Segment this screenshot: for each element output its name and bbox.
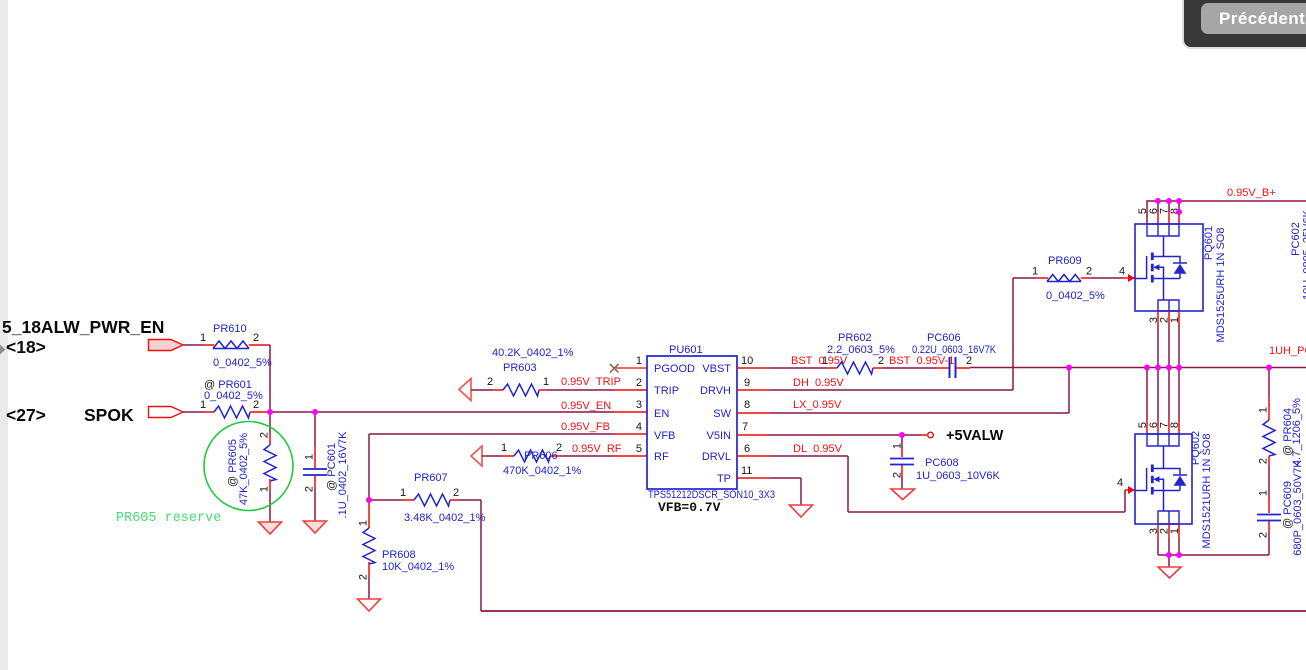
svg-text:2: 2 [1086,266,1092,278]
svg-text:PGOOD: PGOOD [654,363,695,375]
wire V5IN to PC608 tap [767,434,902,436]
svg-text:TP: TP [717,473,731,485]
ground symbol under PR605 [259,522,282,534]
capacitor C PC601 plates [303,469,327,475]
ground symbol under PQ602 [1158,567,1181,578]
wire divider to PR607 pin1 [369,499,404,501]
svg-text:4: 4 [1117,477,1123,489]
wire TP ground drop [800,478,802,505]
svg-text:4.7_1206_5%: 4.7_1206_5% [1291,398,1303,466]
wire LX_0.95V to riser [770,412,1069,414]
IC pin7 stub V5IN [737,434,767,436]
wire connector to PR610 pin1 [183,344,204,346]
resistor R PR602 (zigzag) [837,362,873,374]
wire DL 0.95V right [770,455,848,457]
IC pin2 stub [614,389,647,391]
wire PC609 pin2 to gnd bus [1268,532,1270,555]
transistor Q PQ602 body [1135,434,1192,524]
PQ601 MOSFET channel bars [1151,253,1154,283]
pin1 stub PC606 [936,367,949,369]
capacitor C PC609 plates [1257,515,1281,521]
svg-text:2: 2 [253,399,259,411]
wire SPOK down to PR605 pin2 [269,412,271,434]
wire arrow to PR606 pin1 [482,455,502,457]
wire DH 0.95V to riser [770,389,1013,391]
IC pin10 stub VBST [737,367,770,369]
junction gnd bus pin1 [1176,552,1182,558]
pin2 stub PC606 [956,367,970,369]
PQ601 pin4 stub with arrow [1122,277,1135,279]
pin2 stub PC601 [314,476,316,489]
svg-text:0.95V_EN: 0.95V_EN [561,400,611,412]
resistor R PR603 (zigzag) [503,384,539,396]
junction SW bus / PQ pin column 6-3 [1155,365,1161,371]
svg-text:2: 2 [1258,532,1270,538]
wire stub to ground symbol [1168,555,1170,567]
left grey gutter strip [0,0,8,670]
svg-text:DH 0.95V: DH 0.95V [793,377,844,389]
svg-text:5_18ALW_PWR_EN: 5_18ALW_PWR_EN [2,317,164,337]
wire PR608 pin2 to ground [368,578,370,599]
svg-text:2.2_0603_5%: 2.2_0603_5% [827,344,895,356]
svg-text:1: 1 [259,486,271,492]
IC pin3 stub [614,411,647,413]
wire DL bottom run [848,511,1125,513]
svg-text:2: 2 [878,355,884,367]
wire LX riser up to SW bus [1068,368,1070,414]
svg-text:PR605 reserve: PR605 reserve [116,511,221,526]
wire tap to +5VALW port [902,434,921,436]
svg-text:SW: SW [713,408,731,420]
svg-text:DRVL: DRVL [702,451,731,463]
junction V5IN / PC608 [899,432,905,438]
svg-text:2: 2 [253,332,259,344]
svg-text:4: 4 [1119,266,1125,278]
wire PQ601 pin7 stub [1168,201,1170,212]
svg-text:MDS1521URH 1N SO8: MDS1521URH 1N SO8 [1201,434,1213,549]
wire PR609 pin2 to PQ601 gate [1092,277,1122,279]
wire PR607 pin2 right [458,499,481,501]
wire PR610 pin2 down to SPOK net [269,345,271,412]
svg-text:1: 1 [358,520,370,526]
svg-text:PC602: PC602 [1290,222,1302,256]
svg-text:RF: RF [654,451,669,463]
svg-text:5: 5 [636,443,642,455]
junction SW bus / PQ pin column 7-2 [1166,365,1172,371]
pin1 stub PR604 [1268,396,1270,420]
resistor R PR606 (zigzag) [514,450,550,462]
svg-text:2: 2 [892,472,904,478]
PQ602 pin4 stub with arrow [1125,489,1135,491]
svg-text:8: 8 [744,399,750,411]
wire FB down to divider [368,434,370,500]
capacitor C PC608 plates [890,459,914,465]
pin1 stub PR601 [204,411,214,413]
resistor R PR610 (triangle style) [213,341,249,349]
svg-text:PC608: PC608 [925,457,959,469]
svg-text:2: 2 [966,355,972,367]
wire SW bus down to PR604 pin1 [1268,368,1270,397]
pin1 stub PC601 [314,446,316,468]
junction pin8 stub [1176,209,1182,215]
svg-text:3: 3 [636,399,642,411]
svg-text:PC606: PC606 [927,332,961,344]
svg-text:680P_0603_50V7K: 680P_0603_50V7K [1292,460,1304,556]
junction SW bus / PQ pin column 5 [1144,365,1150,371]
green highlight circle around PR605 [204,422,293,511]
wire PR605 pin1 to ground [269,490,271,522]
pin2 stub PC609 [1268,521,1270,532]
port connector for net 27 (SPOK) [149,407,184,418]
junction at PR605 tap [267,409,273,415]
svg-text:2: 2 [304,486,316,492]
transistor Q PQ601 body [1135,224,1203,311]
open circle port +5VALW [928,432,934,438]
wire VBST to PR602 pin1 [770,367,827,369]
svg-text:2: 2 [487,376,493,388]
svg-text:2: 2 [1258,458,1270,464]
svg-text:VFB=0.7V: VFB=0.7V [658,500,721,515]
wire PQ602 pin3 stub [1157,524,1159,538]
resistor R PR607 (zigzag) [414,494,450,506]
svg-text:1: 1 [892,443,904,449]
off-page arrow on RF net [471,446,482,466]
PQ601 bottom pad cells [1158,300,1179,311]
wire 0.95V_FB horizontal [369,433,614,435]
resistor R PR605 (vertical zigzag) [264,445,276,481]
wire PC601 pin2 to ground [314,489,316,521]
svg-text:2: 2 [636,377,642,389]
svg-text:8: 8 [1169,422,1181,428]
wire connector to PR601 pin1 [183,411,204,413]
grey scroll arrow at left edge [0,345,6,355]
pin2 stub PR606 [550,455,560,457]
pin1 stub PR602 [827,367,837,369]
button Précédent [1201,3,1306,34]
wire PQ602 pin8 drop [1178,368,1180,421]
wire 0.95V_TRIP to IC pin2 [548,389,614,391]
svg-text:3.48K_0402_1%: 3.48K_0402_1% [404,512,486,524]
svg-text:MDS1525URH 1N SO8: MDS1525URH 1N SO8 [1215,228,1227,343]
svg-text:10: 10 [741,355,753,367]
wire PQ602 pin1 stub [1178,524,1180,538]
svg-text:0_0402_5%: 0_0402_5% [1046,290,1105,302]
pin1 stub PR608 [368,500,370,528]
pin1 stub PR606 [502,455,514,457]
svg-text:1: 1 [1169,528,1181,534]
svg-text:1UH_PC0: 1UH_PC0 [1269,345,1306,357]
IC pin5 stub [614,455,647,457]
wire PQ601 pin8 stub [1178,201,1180,212]
wire PQ602 pin6 drop [1157,368,1159,421]
svg-text:10K_0402_1%: 10K_0402_1% [382,561,454,573]
pin2 stub PR609 [1081,277,1092,279]
svg-text:1: 1 [1169,317,1181,323]
svg-text:PR607: PR607 [414,472,448,484]
pin1 stub PR605 [269,479,271,490]
svg-text:<27>: <27> [6,405,46,425]
capacitor C PC606 plates [950,357,956,378]
svg-text:0.22U_0603_16V7K: 0.22U_0603_16V7K [912,344,997,356]
PQ602 MOSFET channel bars [1151,465,1154,495]
wire 0.95V RF to IC pin5 [560,455,614,457]
svg-text:.1U_0402_16V7K: .1U_0402_16V7K [337,431,349,519]
PQ602 top pad cells [1147,434,1179,446]
pin1 stub PC609 [1268,497,1270,513]
off-page arrow on TRIP net [459,379,471,401]
svg-text:1: 1 [1032,266,1038,278]
junction FB divider [366,497,372,503]
svg-text:DRVH: DRVH [700,385,731,397]
pin2 stub PR603 [493,389,503,391]
junction top bus pin8 [1176,198,1182,204]
svg-text:PR603: PR603 [503,362,537,374]
wire TP to ground drop [770,477,801,479]
wire PQ601 pin2 stub [1168,311,1170,325]
ground symbol under PC608 [891,489,915,500]
svg-text:PR608: PR608 [382,549,416,561]
PQ602 MOSFET symbol [1135,446,1187,511]
resistor R PR608 (vertical zigzag) [363,528,375,564]
svg-text:1: 1 [1258,407,1270,413]
wire SPOK net to IC pin3 (0.95V_EN) [270,411,614,413]
svg-text:<18>: <18> [6,337,46,357]
svg-text:4: 4 [636,421,642,433]
pin1 stub PR607 [404,499,414,501]
svg-text:1: 1 [1258,490,1270,496]
svg-text:40.2K_0402_1%: 40.2K_0402_1% [492,347,574,359]
no-connect X on PGOOD pin1 [610,364,619,373]
toolbar panel top right [1182,0,1306,49]
svg-text:LX_0.95V: LX_0.95V [793,399,842,411]
svg-text:2: 2 [453,487,459,499]
PQ601 body diode [1174,264,1187,274]
pin2 stub PR610 [249,344,270,346]
PQ602 MOSFET arrow [1153,476,1160,482]
svg-text:2: 2 [358,574,370,580]
junction SW bus / PQ pin column 8-1 [1176,365,1182,371]
svg-text:2: 2 [556,442,562,454]
IC pin11 stub TP [737,477,770,479]
wire PR602 to PC606 pin1 [884,367,936,369]
wire PQ602 pin7 drop [1168,368,1170,421]
svg-text:PQ601: PQ601 [1203,226,1215,260]
junction at PC601 tap [312,409,318,415]
svg-text:VBST: VBST [702,363,731,375]
svg-text:10U_0805_25V6K: 10U_0805_25V6K [1302,209,1306,300]
pin1 stub PR610 [204,344,214,346]
wire PQ602 pin2 stub [1168,524,1170,538]
svg-text:PR602: PR602 [838,332,872,344]
wire DL down [847,456,849,512]
junction top bus pin6 [1155,198,1161,204]
svg-text:9: 9 [744,377,750,389]
junction gnd bus pin2 [1166,552,1172,558]
svg-text:DL 0.95V: DL 0.95V [793,443,843,455]
svg-text:1: 1 [304,454,316,460]
pin2 stub PR605 [269,434,271,445]
wire PR607 pin2 down to bottom rail [480,500,482,611]
svg-text:PR609: PR609 [1048,255,1082,267]
svg-text:1: 1 [636,355,642,367]
PQ601 MOSFET symbol [1135,236,1187,300]
wire PQ601 pin3 stub [1157,311,1159,325]
junction SW bus / PR604 [1266,365,1272,371]
IC pin4 stub [614,433,647,435]
junction SW bus / LX drop [1066,365,1072,371]
svg-text:1: 1 [543,376,549,388]
wire PQ602 pin5 drop [1146,368,1148,421]
pin2 stub PC608 [901,465,903,477]
PQ601 MOSFET arrow [1153,264,1160,270]
pin1 stub PR609 [1036,277,1048,279]
svg-text:1: 1 [200,399,206,411]
PQ602 bottom pad cells [1158,511,1179,524]
wire DL riser to PQ602 gate [1124,490,1126,512]
svg-text:0.95V_B+: 0.95V_B+ [1227,187,1276,199]
wire SPOK down to PC601 pin1 [314,412,316,446]
svg-text:1U_0603_10V6K: 1U_0603_10V6K [916,470,1000,482]
svg-text:EN: EN [654,408,669,420]
wire DH riser up to PR609 [1012,278,1014,390]
pin2 stub PR607 [450,499,458,501]
svg-text:0.95V TRIP: 0.95V TRIP [561,376,621,388]
svg-text:SPOK: SPOK [84,405,134,425]
resistor R PR604 (vertical zigzag) [1263,420,1275,456]
svg-text:6: 6 [744,443,750,455]
svg-text:0.95V RF: 0.95V RF [572,443,622,455]
bottom feedback rail wire [481,610,1306,612]
op-amp/controller IC PU601 body [647,356,737,489]
SW bus wire PC606 to right edge [970,367,1306,369]
svg-text:1: 1 [200,332,206,344]
svg-text:V5IN: V5IN [707,430,732,442]
port connector for net 18 (PWR_EN) [149,340,184,351]
svg-text:1: 1 [400,487,406,499]
junction top bus pin7 [1166,198,1172,204]
pin2 stub PR602 [873,367,884,369]
ground symbol under PC601 [304,521,327,533]
svg-text:2: 2 [259,432,271,438]
IC pin9 stub DRVH [737,389,770,391]
pin2 stub PR608 [368,562,370,578]
wire PC608 pin2 to ground [901,477,903,489]
wire PQ601 pin1 stub [1178,311,1180,325]
svg-text:1: 1 [501,442,507,454]
pin1 stub PC608 [901,435,903,448]
svg-text:PR610: PR610 [213,323,247,335]
ground bus wire under PQ602 [1158,554,1269,556]
svg-text:0.95V_FB: 0.95V_FB [561,421,610,433]
wire riser to PR609 pin1 [1013,277,1036,279]
svg-text:TRIP: TRIP [654,385,679,397]
PQ602 body diode [1174,476,1187,486]
svg-text:BST 0.95V-1: BST 0.95V-1 [889,355,954,367]
svg-text:PU601: PU601 [669,344,703,356]
svg-text:1: 1 [822,355,828,367]
IC pin8 stub SW [737,412,770,414]
wire PQ601 pin6 stub [1157,201,1159,212]
svg-text:PR606: PR606 [524,450,558,462]
svg-text:470K_0402_1%: 470K_0402_1% [503,465,582,477]
resistor R PR601 (zigzag) [214,406,250,418]
PQ601 top pad cells [1147,224,1179,236]
pin1 stub PR603 [539,389,548,391]
svg-text:7: 7 [742,421,748,433]
svg-text:+5VALW: +5VALW [946,428,1004,444]
pin2 stub PR604 [1268,456,1270,466]
resistor R PR609 (triangle style) [1047,275,1081,282]
0.95V_B+ top bus wire [1147,201,1306,224]
ground symbol under PR608 [358,599,381,611]
IC pin1 stub [616,367,647,369]
IC pin6 stub DRVL [737,455,770,457]
pin2 stub PR601 [250,411,270,413]
svg-text:47K_0402_5%: 47K_0402_5% [238,433,250,505]
svg-text:0_0402_5%: 0_0402_5% [213,357,272,369]
ground symbol on TP [790,505,813,517]
wire PR604 to PC609 [1268,466,1270,497]
wire arrow to PR603 pin2 [471,389,493,391]
svg-text:VFB: VFB [654,430,675,442]
svg-text:11: 11 [741,465,752,477]
